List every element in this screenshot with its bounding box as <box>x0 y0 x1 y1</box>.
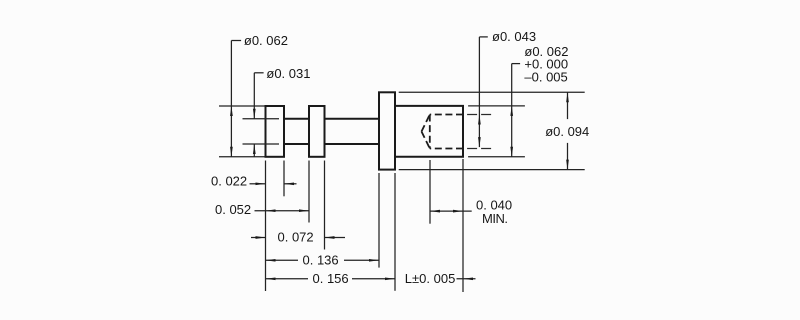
svg-text:–0. 005: –0. 005 <box>524 69 567 84</box>
svg-text:0. 136: 0. 136 <box>303 252 339 267</box>
svg-text:ø0. 031: ø0. 031 <box>266 66 310 81</box>
svg-text:0. 052: 0. 052 <box>215 202 251 217</box>
svg-text:0. 022: 0. 022 <box>211 173 247 188</box>
svg-text:ø0. 062: ø0. 062 <box>244 33 288 48</box>
svg-text:0. 072: 0. 072 <box>278 230 314 245</box>
svg-text:L±0. 005: L±0. 005 <box>405 271 456 286</box>
svg-text:ø0. 094: ø0. 094 <box>545 124 589 139</box>
svg-text:ø0. 043: ø0. 043 <box>492 29 536 44</box>
svg-text:0. 156: 0. 156 <box>313 271 349 286</box>
svg-text:MIN.: MIN. <box>482 211 507 226</box>
